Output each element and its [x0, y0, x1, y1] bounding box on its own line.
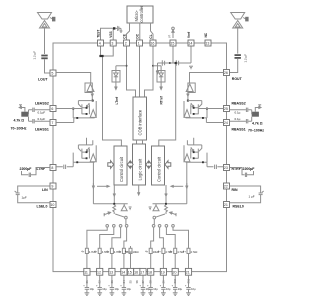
svg-text:10µ: 10µ [115, 287, 120, 291]
svg-text:1.2 µF: 1.2 µF [33, 51, 37, 60]
junction dot rail [169, 62, 171, 64]
switch bar right [153, 203, 187, 205]
svg-text:RIN: RIN [232, 188, 239, 192]
svg-text:LTref: LTref [115, 96, 119, 104]
wire logic box down stub [138, 185, 140, 195]
wire RTref feed to control box [159, 63, 176, 146]
svg-text:8: 8 [51, 166, 53, 170]
control circuit box (right) [152, 146, 165, 185]
capacitor C9 0.1uF (RBASS1) [230, 117, 252, 124]
wire pin6 LBASS2 to cluster [56, 108, 82, 110]
bottom pin 21 [185, 268, 191, 275]
svg-text:CE: CE [122, 34, 126, 38]
wire pole down left [125, 219, 127, 225]
svg-text:4+: 4+ [170, 250, 173, 254]
wire RIN arrow into control box right [171, 183, 188, 188]
ground (pin 19) [161, 293, 166, 296]
wire pin16 CL down to COB [145, 46, 154, 97]
svg-text:CL: CL [149, 34, 153, 38]
top pin 3 [110, 40, 116, 46]
bottom pin 16 [134, 268, 140, 275]
capacitor C11 2200uF loop (RTRF) [230, 168, 254, 178]
wire cluster2 output down to switch bar [92, 162, 94, 204]
svg-text:2200µF: 2200µF [20, 167, 33, 171]
hollow double arrow box2-box3 [146, 161, 152, 168]
top pin 2 [124, 40, 130, 46]
left pin 9 LIN [50, 183, 56, 189]
svg-text:9: 9 [51, 185, 53, 189]
logic circuit box [133, 144, 146, 185]
ground (pin 18) [148, 293, 153, 296]
transistor pair Q3/Q4 (right bass driver) [184, 101, 207, 118]
bottom pin 12 [97, 268, 103, 275]
svg-text:20: 20 [173, 271, 177, 275]
capacitor C1 1.2uF (left output cap) [33, 51, 48, 60]
fan wire right c3 to pin19 [166, 227, 175, 246]
svg-text:0.1µ: 0.1µ [235, 117, 241, 121]
svg-text:S6: S6 [135, 280, 139, 284]
svg-text:10µ: 10µ [90, 287, 95, 291]
fan wire right c1 to pin17 [151, 227, 154, 246]
capacitor C17 (pin 17) [141, 275, 145, 293]
fan wire left c2 to pin12 [100, 227, 114, 246]
capacitor C20 (pin 20) [173, 275, 177, 293]
op-amp A1 (left headphone amp) [85, 83, 94, 93]
resistor R13 (pin 13) [110, 246, 113, 268]
ground left cluster [129, 207, 132, 210]
ground (pin 11) [85, 293, 90, 296]
capacitor C8 0.1uF (RBASS2) [230, 108, 252, 115]
IC U1 package outline [53, 43, 227, 272]
resistor R11 (pin 11) [85, 246, 88, 268]
hollow arrow right of control box [165, 161, 171, 169]
svg-text:22: 22 [224, 185, 228, 189]
right pin 26 ROUT [224, 70, 230, 76]
wire control box3 down to switch bar [165, 185, 167, 204]
top pin 14 [188, 40, 194, 46]
svg-text:LBASS1: LBASS1 [35, 128, 49, 132]
wire U2 to pin DC [139, 23, 141, 40]
resistor R2 (bar right) [165, 205, 168, 214]
inverter triangle right cluster [153, 204, 159, 211]
wire pole down right [153, 219, 155, 225]
wire LTref feed to control box [103, 56, 122, 146]
svg-text:NC: NC [204, 32, 208, 37]
wire A1 output down [91, 93, 93, 101]
capacitor C13 1uF loop (RIN to RSEL0) [230, 186, 264, 203]
resistor R12 (pin 12) [98, 246, 101, 268]
capacitor C6 0.1uF (LBASS2) [29, 108, 50, 115]
svg-text:16: 16 [134, 271, 138, 275]
svg-text:4+: 4+ [183, 250, 186, 254]
resistor R15 (pin 15) [129, 246, 132, 268]
fan wire right c4 to pin20 [173, 227, 189, 246]
bottom pin 20 [172, 268, 178, 275]
svg-text:Control circuit: Control circuit [119, 156, 124, 182]
switch lever right [156, 214, 166, 217]
svg-text:1µF: 1µF [22, 195, 27, 199]
svg-text:10µ: 10µ [153, 287, 158, 291]
junction dot bar right [165, 203, 167, 205]
top pin 4 [98, 40, 104, 46]
wire pin7 LBASS1 to cluster [56, 118, 74, 123]
wire branch to LTref [116, 65, 127, 67]
wire ROUT to amp A2 [190, 73, 224, 84]
wire speaker SP1 to C1 [44, 28, 46, 54]
switch lever left [115, 214, 125, 217]
wire cluster output down to switch bar right [186, 162, 188, 204]
fan wire left c1 to pin11 [87, 227, 107, 246]
capacitor C12 (pin 12) [98, 275, 102, 293]
svg-text:DC: DC [135, 33, 139, 38]
wire pin1 DC down to COB [139, 46, 141, 97]
wire speaker SP2 to C2 [237, 28, 239, 54]
svg-text:controller: controller [139, 5, 144, 22]
svg-text:18: 18 [148, 271, 152, 275]
transistor pair Q7/Q8 (right treble driver) [184, 145, 207, 162]
switch bar left [93, 203, 127, 205]
svg-text:Control circuit: Control circuit [156, 156, 161, 182]
capacitor C4 (rail) [162, 60, 164, 66]
transistor pair Q5/Q6 (left treble driver) [73, 145, 96, 162]
svg-text:14: 14 [188, 42, 192, 46]
svg-text:70~100Hz: 70~100Hz [11, 126, 27, 130]
svg-text:17: 17 [140, 271, 144, 275]
svg-text:2200µF: 2200µF [243, 167, 256, 171]
top pin 13 [205, 40, 211, 46]
wire pin25 RBASS2 to cluster [198, 108, 223, 110]
fan wire left c4 to pin14 [124, 227, 127, 246]
resistor R14 (pin 14) [122, 246, 125, 268]
svg-text:10kΩ: 10kΩ [133, 250, 139, 254]
transistor pair Q1/Q2 (left bass driver) [73, 101, 96, 118]
wire cluster2 tops up [87, 138, 93, 145]
top pin 15 [170, 40, 176, 46]
junction dot feed right [175, 62, 177, 64]
svg-text:10µ: 10µ [102, 287, 107, 291]
speaker SP2 (right horn tweeter) [231, 13, 249, 29]
svg-text:24: 24 [224, 121, 228, 125]
svg-text:4+: 4+ [81, 250, 84, 254]
junction dot CL branch [152, 65, 154, 67]
fan wire right c2 to pin18 [160, 227, 164, 246]
junction dot CE branch [126, 65, 128, 67]
ground (pin 12) [97, 293, 102, 296]
wire VDD internal rail [158, 62, 192, 64]
micro-controller U2 box [127, 6, 153, 23]
wiper arrow right [170, 212, 177, 217]
svg-text:0.1µF: 0.1µF [38, 117, 46, 121]
svg-text:13: 13 [109, 271, 113, 275]
contact circles left [106, 225, 109, 228]
ground (pin 20) [173, 293, 178, 296]
wire pin15 VDD down [172, 46, 174, 63]
svg-text:Logic circuit: Logic circuit [137, 158, 142, 180]
svg-text:16: 16 [150, 42, 154, 46]
capacitor C18 (pin 18) [149, 275, 153, 293]
wire branch to RTref [153, 65, 161, 67]
fan wire left c3 to pin13 [112, 227, 121, 246]
svg-text:S5: S5 [129, 280, 133, 284]
bottom pin 11 [84, 268, 90, 275]
bottom pin 15 [127, 268, 133, 275]
svg-text:VSS: VSS [109, 31, 113, 37]
capacitor C19 (pin 19) [161, 275, 165, 293]
right pin 22 RIN [224, 183, 230, 189]
wire TEST/VSS loop [101, 28, 115, 40]
junction dots Q7/Q8 [193, 151, 195, 153]
top pin 1 [137, 40, 143, 46]
left pin 6 LBASS2 [50, 106, 56, 112]
resistor R20 (pin 20) [174, 246, 177, 268]
junction dot bar left [113, 203, 115, 205]
svg-text:4+: 4+ [145, 250, 148, 254]
svg-text:COB interface: COB interface [138, 109, 143, 135]
svg-text:5: 5 [51, 72, 53, 76]
left pin 5 LOUT [50, 70, 56, 76]
svg-text:RBASS1: RBASS1 [232, 128, 246, 132]
wire pin23 RTRF to cluster with cap C15 [207, 162, 224, 169]
svg-text:10µ: 10µ [166, 287, 171, 291]
svg-text:6: 6 [51, 107, 53, 111]
wire LOUT to amp A1 [56, 73, 91, 84]
wire pin24 RBASS1 to cluster [206, 118, 223, 123]
svg-text:15: 15 [128, 271, 132, 275]
capacitor C13 (pin 13) [110, 275, 114, 293]
switch pole circle left [125, 216, 128, 219]
svg-text:21: 21 [186, 271, 190, 275]
ground right cluster [149, 207, 152, 210]
svg-text:2: 2 [125, 42, 127, 46]
capacitor C14 (pin 14) [122, 275, 126, 293]
svg-text:0.1µF: 0.1µF [38, 111, 46, 115]
inverter triangle left cluster [121, 204, 127, 211]
svg-text:4+: 4+ [106, 250, 109, 254]
svg-text:13: 13 [205, 42, 209, 46]
junction dot pin4 [99, 55, 101, 57]
wire A2 output down [187, 93, 189, 101]
potentiometer VR1 4.7k (left bass) [19, 105, 29, 117]
hollow double arrow box1-box2 [127, 161, 133, 168]
junction dot A2 out [187, 100, 189, 102]
svg-text:4.7kΩ: 4.7kΩ [191, 250, 198, 254]
right pin 23 RTRF [224, 165, 230, 171]
svg-text:LSEL0: LSEL0 [37, 205, 48, 209]
svg-text:4+: 4+ [158, 250, 161, 254]
wire U2 to pin CL [151, 23, 154, 40]
junction dots Q1/Q2 [86, 107, 88, 109]
svg-text:1.2 µF: 1.2 µF [244, 54, 248, 63]
COB interface box [133, 97, 147, 140]
svg-text:12: 12 [97, 271, 101, 275]
capacitor C11 (pin 11) [85, 275, 89, 293]
svg-text:10µ: 10µ [191, 287, 196, 291]
wire pin2 CE down to COB [127, 46, 136, 97]
svg-text:4+: 4+ [94, 250, 97, 254]
svg-text:4+: 4+ [125, 250, 128, 254]
wire pin4 TEST internal [101, 46, 114, 56]
capacitor C2 1.2uF (right output cap) [235, 54, 248, 63]
diode D2 RTref [157, 66, 165, 90]
wire pin8 LTRF to cluster with cap C14 [56, 162, 73, 169]
wire cluster tops up right [187, 138, 193, 145]
resistor R21 (pin 21) [187, 246, 190, 268]
left pin 7 LBASS1 [50, 120, 56, 126]
svg-text:70~100Hz: 70~100Hz [248, 128, 264, 132]
hollow arrow left of control box [108, 161, 114, 169]
contact circles right [152, 225, 155, 228]
ground (rail right) [189, 66, 193, 69]
capacitor C12 1uF loop (LIN to LSEL0) [15, 186, 50, 203]
junction dot A1 out [92, 100, 94, 102]
svg-text:4.7k Ω: 4.7k Ω [252, 121, 263, 125]
capacitor C10 2200uF loop (LTRF) [22, 168, 50, 178]
svg-text:21: 21 [224, 203, 228, 207]
junction dot feed left [101, 55, 103, 57]
svg-text:25: 25 [224, 107, 228, 111]
svg-text:7: 7 [51, 121, 53, 125]
svg-text:26: 26 [224, 71, 228, 75]
capacitor C5 (rail) [176, 60, 178, 66]
op-amp A2 (right headphone amp) [186, 83, 195, 93]
arrow down (bias) [156, 63, 159, 74]
right pin 21 RSEL0 [224, 202, 230, 208]
top pin 16 [150, 40, 156, 46]
svg-text:RSEL0: RSEL0 [233, 205, 244, 209]
svg-text:10: 10 [50, 203, 54, 207]
bottom pin 14 [121, 268, 127, 275]
svg-text:1: 1 [138, 42, 140, 46]
svg-text:LOUT: LOUT [38, 78, 48, 82]
bottom pin 17 [140, 268, 146, 275]
svg-text:14: 14 [121, 271, 125, 275]
svg-text:0.1µ: 0.1µ [235, 111, 241, 115]
ground (pin 14) [122, 293, 127, 296]
right pin 24 RBASS1 [224, 120, 230, 126]
wire C1 to pin LOUT [45, 59, 50, 73]
resistor R18 (pin 18) [149, 246, 152, 268]
svg-text:15: 15 [170, 42, 174, 46]
bottom pin 18 [148, 268, 154, 275]
svg-text:4.7k Ω: 4.7k Ω [14, 119, 25, 123]
speaker SP1 (left horn tweeter) [38, 13, 56, 29]
svg-text:23: 23 [224, 166, 228, 170]
svg-text:ROUT: ROUT [232, 77, 243, 81]
ground (pin 13) [110, 293, 115, 296]
potentiometer VR2 4.7k (right bass) [252, 105, 262, 117]
wire U2 to pin CE [127, 23, 130, 40]
svg-text:V?: V? [168, 34, 172, 38]
svg-text:10µ: 10µ [127, 287, 132, 291]
svg-text:4: 4 [99, 42, 101, 46]
svg-text:4+: 4+ [118, 250, 121, 254]
wire LIN arrow into control box [92, 183, 109, 188]
svg-text:11: 11 [84, 271, 88, 275]
resistor R19 (pin 19) [162, 246, 165, 268]
svg-text:1 µF: 1 µF [249, 195, 255, 199]
svg-text:RBASS2: RBASS2 [232, 101, 246, 105]
control circuit box (left) [114, 146, 127, 185]
wire C2 to pin ROUT [230, 59, 238, 73]
junction dots Q5/Q6 [86, 151, 88, 153]
svg-text:10µ: 10µ [178, 287, 183, 291]
wire COB to logic box [137, 140, 143, 144]
ground (pin 21) [186, 293, 191, 296]
right pin 25 RBASS2 [224, 106, 230, 112]
bottom pin 19 [160, 268, 166, 275]
left pin 10 LSEL0 [50, 202, 56, 208]
svg-text:RTref: RTref [159, 95, 163, 104]
ground (pin 17) [141, 293, 146, 296]
power VDD arrow [172, 27, 175, 38]
capacitor C21 (pin 21) [186, 275, 190, 293]
resistor R1 (bar left) [113, 205, 116, 214]
svg-text:3: 3 [111, 42, 113, 46]
capacitor C3 with ground (VSS decoupling) [115, 26, 122, 32]
wiper arrow left [104, 212, 111, 217]
capacitor C7 0.1uF (LBASS1) [29, 117, 50, 124]
left pin 8 LTRF [50, 165, 56, 171]
wire pin14 Vref down [190, 46, 192, 63]
svg-text:Vref: Vref [187, 31, 191, 38]
svg-text:LIN: LIN [42, 188, 48, 192]
svg-text:LBASS2: LBASS2 [35, 101, 49, 105]
junction node TEST/VSS [113, 27, 115, 29]
svg-text:TEST: TEST [96, 30, 100, 38]
wire control box1 down to switch bar [113, 185, 115, 204]
junction dots Q3/Q4 [193, 107, 195, 109]
bottom pin 13 [109, 268, 115, 275]
svg-text:19: 19 [161, 271, 165, 275]
diode D1 LTref [112, 66, 120, 90]
switch pole circle right [153, 216, 156, 219]
